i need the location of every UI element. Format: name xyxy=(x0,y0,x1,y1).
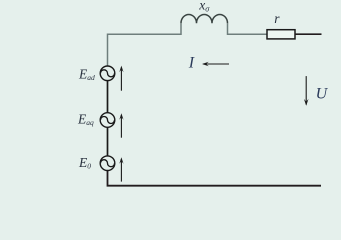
svg-text:U: U xyxy=(316,86,329,103)
svg-text:I: I xyxy=(188,54,195,71)
svg-text:r: r xyxy=(274,11,280,26)
